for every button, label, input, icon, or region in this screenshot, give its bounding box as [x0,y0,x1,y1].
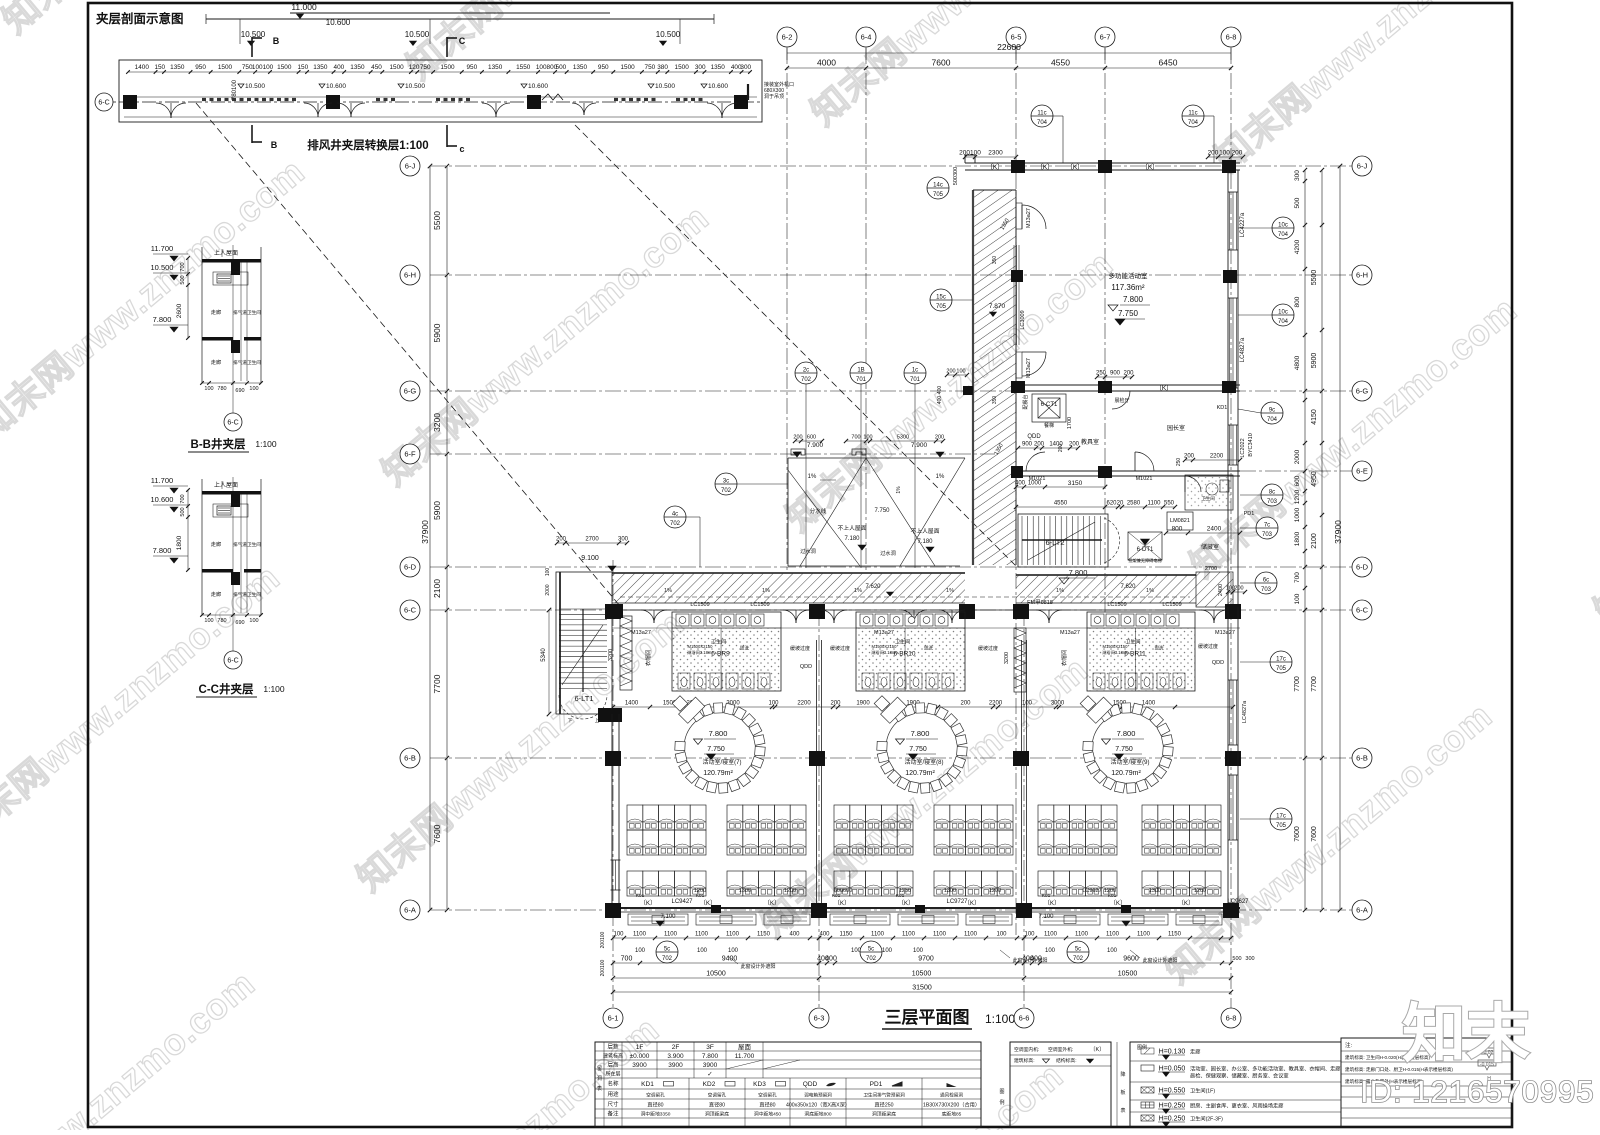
svg-text:板: 板 [1120,1089,1125,1096]
svg-text:6-3: 6-3 [814,1014,825,1023]
svg-text:705: 705 [933,192,944,198]
svg-text:7.750: 7.750 [1115,746,1133,753]
svg-text:350: 350 [992,256,998,265]
svg-text:1400: 1400 [1142,701,1156,707]
svg-text:B: B [273,36,280,46]
svg-text:704: 704 [1188,120,1199,126]
window LC3009 [1013,245,1015,345]
svg-text:活动室/寝室(8): 活动室/寝室(8) [904,758,943,766]
svg-text:7.800: 7.800 [702,1053,719,1060]
svg-text:层高: 层高 [607,1061,619,1069]
svg-text:〔K〕: 〔K〕 [764,900,780,907]
svg-text:1500: 1500 [218,64,233,71]
svg-text:6-H: 6-H [404,271,416,280]
svg-text:M1500X2150: M1500X2150 [1103,644,1129,649]
svg-text:〔K〕: 〔K〕 [898,900,914,907]
svg-text:6c: 6c [1263,578,1269,584]
svg-text:活动室/寝室(7): 活动室/寝室(7) [702,758,741,766]
svg-text:17c: 17c [1276,814,1286,820]
svg-text:20: 20 [1117,501,1124,507]
svg-text:名称: 名称 [607,1080,619,1088]
svg-text:400: 400 [937,386,943,395]
svg-text:100: 100 [249,386,258,392]
svg-text:6-F: 6-F [404,450,416,459]
svg-text:此窗设计外遮阳: 此窗设计外遮阳 [740,963,775,970]
svg-text:100: 100 [1022,701,1033,707]
svg-text:6-7: 6-7 [1100,33,1111,42]
bed group lower x=727 [727,871,743,896]
svg-text:200: 200 [1069,442,1080,448]
svg-text:KD2: KD2 [703,1081,716,1088]
strip columns [123,95,137,109]
svg-text:350: 350 [992,396,998,405]
svg-text:LC4227a: LC4227a [1240,212,1246,237]
bed group lower x=1038 [1038,871,1054,896]
svg-text:7700: 7700 [1311,676,1318,692]
svg-text:3150: 3150 [1068,480,1083,487]
svg-text:LC1509: LC1509 [750,602,769,608]
windows right wall LC4227a LC4827a [1232,192,1234,250]
svg-text:7.900: 7.900 [807,442,824,449]
svg-text:6-2: 6-2 [782,33,793,42]
svg-text:200: 200 [935,435,944,441]
svg-text:100: 100 [697,948,708,954]
bed group lower x=627 [627,871,643,896]
svg-text:705: 705 [1276,666,1287,672]
axis bubble 6-C strip [95,93,113,111]
svg-text:700: 700 [621,956,633,963]
svg-text:200: 200 [1034,442,1045,448]
svg-text:6-J: 6-J [405,162,416,171]
svg-text:37900: 37900 [420,520,430,544]
svg-text:900: 900 [1022,442,1033,448]
chain 31500 row [613,991,1231,993]
svg-text:6-BR9: 6-BR9 [711,651,730,658]
stair 6-LT2 [1018,514,1108,567]
bed group lower x=834 [834,871,850,896]
svg-text:250: 250 [1176,458,1182,467]
svg-text:夹层剖面示意图: 夹层剖面示意图 [96,11,184,26]
svg-text:2400: 2400 [1207,526,1222,533]
bed group upper x=1142 [1142,805,1158,830]
right wall lower wing [1227,607,1229,910]
svg-text:100: 100 [863,435,872,441]
svg-text:所在层: 所在层 [605,1071,620,1078]
svg-text:排气道: 排气道 [233,309,247,316]
strip double doors [156,103,171,118]
svg-text:c: c [459,144,464,154]
svg-text:5500: 5500 [432,211,442,230]
svg-text:400: 400 [819,932,830,938]
axis bubble 6-C (C-C) [232,621,234,651]
svg-text:1%: 1% [936,474,945,480]
svg-text:2700: 2700 [1205,566,1217,572]
svg-text:PD1: PD1 [1244,511,1255,517]
svg-text:〔K〕: 〔K〕 [1178,900,1194,907]
svg-text:BYC3410: BYC3410 [1248,433,1254,457]
svg-text:3900: 3900 [632,1062,647,1069]
svg-text:缓坡过度: 缓坡过度 [978,645,998,652]
svg-text:705: 705 [936,304,947,310]
svg-text:衣帽间: 衣帽间 [644,650,652,667]
svg-text:洞于吊顶: 洞于吊顶 [764,93,784,100]
bottom columns [605,903,621,918]
5c bubbles [656,941,678,963]
svg-text:500300: 500300 [953,167,959,185]
svg-text:层数: 层数 [607,1043,619,1051]
corridor columns [605,604,621,619]
svg-text:LC4827a: LC4827a [1242,700,1248,723]
svg-text:900: 900 [1110,371,1121,377]
dims rows 400 1000 / 3150 [1016,486,1045,488]
svg-text:690: 690 [235,388,244,394]
svg-text:200100: 200100 [600,931,606,948]
svg-text:6-6: 6-6 [1019,1014,1030,1023]
svg-text:400: 400 [825,956,837,963]
svg-text:200: 200 [1058,444,1064,453]
svg-text:晨检厅: 晨检厅 [1114,397,1129,404]
svg-text:✓: ✓ [707,1071,712,1078]
svg-text:6-LT1: 6-LT1 [574,694,593,703]
svg-text:400: 400 [1030,956,1042,963]
svg-text:卫生间(1F): 卫生间(1F) [1190,1087,1215,1095]
svg-text:1550: 1550 [516,64,531,71]
svg-text:结构标高:: 结构标高: [1056,1057,1077,1064]
svg-text:C-C井夹层: C-C井夹层 [199,682,254,696]
svg-text:M1021: M1021 [1136,476,1153,482]
bubbles above roof [795,362,817,384]
svg-text:多功能活动室: 多功能活动室 [1109,271,1149,280]
svg-text:1300: 1300 [1149,888,1161,894]
svg-text:洞中距地3350: 洞中距地3350 [641,1111,671,1118]
svg-text:5900: 5900 [432,501,442,520]
svg-text:9400: 9400 [722,956,738,963]
svg-text:1:100: 1:100 [255,439,277,449]
right dimension chains [1304,170,1306,610]
bay window 898 [898,914,958,925]
svg-text:10500: 10500 [706,971,726,978]
svg-text:ID: 1216570995: ID: 1216570995 [1360,1074,1595,1109]
svg-text:750: 750 [645,64,656,71]
svg-text:1200: 1200 [989,888,1001,894]
svg-text:704: 704 [1037,120,1048,126]
svg-text:400: 400 [789,932,800,938]
svg-text:缓坡过度: 缓坡过度 [830,645,850,652]
svg-text:7600: 7600 [932,58,951,68]
svg-text:卫生间: 卫生间 [247,591,261,598]
svg-text:卫生间: 卫生间 [247,541,261,548]
svg-text:5300: 5300 [897,435,909,441]
svg-text:1200: 1200 [784,888,796,894]
svg-text:2700: 2700 [585,537,599,543]
svg-text:知末: 知末 [1402,998,1530,1070]
svg-text:直径80: 直径80 [647,1101,663,1109]
svg-text:11.700: 11.700 [151,244,173,253]
svg-text:LC1509: LC1509 [1107,602,1126,608]
svg-text:〔K〕: 〔K〕 [640,900,656,907]
bay window 1040 [1040,914,1100,925]
svg-text:7.180: 7.180 [917,539,933,545]
svg-text:1150: 1150 [1168,932,1182,938]
svg-text:6-4: 6-4 [861,33,872,42]
svg-text:1%: 1% [1146,588,1154,594]
svg-text:7.900: 7.900 [911,442,928,449]
svg-text:H=0.250: H=0.250 [1159,1103,1186,1110]
svg-text:950: 950 [467,64,478,71]
svg-text:800: 800 [1172,526,1183,533]
washroom 6-BR10 [856,628,965,691]
svg-text:10.500: 10.500 [656,30,681,39]
projection dashed line 1 [196,103,620,606]
svg-text:100: 100 [1107,948,1118,954]
stair 6-LT1 [556,572,612,714]
svg-text:700: 700 [1294,572,1301,583]
svg-text:3200: 3200 [432,413,442,432]
parapet elevation lines above strip [206,18,714,20]
bay window 966 [966,914,1012,925]
svg-text:图: 图 [999,1089,1004,1095]
svg-text:10500: 10500 [912,971,932,978]
svg-text:11c: 11c [1037,111,1046,117]
svg-text:550: 550 [1164,501,1175,507]
svg-text:4950: 4950 [1311,471,1318,487]
svg-text:9.100: 9.100 [581,555,599,562]
svg-text:走廊: 走廊 [211,308,221,316]
section mark C bottom [446,125,448,147]
svg-text:1400: 1400 [625,701,639,707]
svg-text:卫生间: 卫生间 [1125,639,1140,646]
svg-text:1400: 1400 [135,64,150,71]
svg-text:6-G: 6-G [404,387,417,396]
svg-text:11.000: 11.000 [291,2,317,12]
svg-text:1100: 1100 [726,932,740,938]
svg-text:〔K〕: 〔K〕 [1036,163,1053,171]
svg-text:10.600: 10.600 [528,83,548,90]
svg-text:100: 100 [545,568,551,577]
svg-text:703: 703 [1267,499,1278,505]
svg-text:走廊: 走廊 [211,540,221,548]
vertical grid lines [786,48,788,570]
svg-text:建筑标高: 建筑标高 [603,1053,623,1060]
svg-text:6-8: 6-8 [1226,33,1237,42]
svg-text:B-B井夹层: B-B井夹层 [191,437,246,451]
svg-text:600: 600 [807,435,816,441]
svg-text:704: 704 [1278,319,1289,325]
corridor doors M13a27 [641,610,654,623]
svg-text:B: B [271,140,278,150]
left dimension chain [446,166,448,910]
svg-text:1100: 1100 [1044,932,1058,938]
svg-text:5c: 5c [664,947,670,953]
svg-text:底距地85: 底距地85 [942,1111,962,1118]
bubble 10c x2 [1272,217,1294,239]
svg-text:1100: 1100 [871,932,885,938]
columns 6-B row [605,751,621,766]
svg-text:6-H: 6-H [1356,271,1368,280]
svg-text:6-LT2: 6-LT2 [1045,538,1064,547]
svg-text:120.79m²: 120.79m² [905,770,935,777]
svg-text:22600: 22600 [997,42,1021,52]
bay window 1176 [1176,914,1222,925]
svg-text:3200: 3200 [1004,652,1010,664]
svg-text:洞底距地800: 洞底距地800 [804,1111,832,1118]
svg-text:1100: 1100 [1075,932,1089,938]
svg-text:洞顶距梁底: 洞顶距梁底 [705,1111,729,1118]
svg-text:500: 500 [1232,956,1241,962]
svg-text:2200: 2200 [797,701,811,707]
svg-text:7600: 7600 [1311,826,1318,842]
svg-text:10.600: 10.600 [326,83,346,90]
svg-text:500: 500 [180,275,186,284]
LM0821 [1167,512,1193,530]
svg-text:1200: 1200 [694,888,706,894]
svg-text:7.620: 7.620 [865,584,881,590]
svg-text:6450: 6450 [1159,58,1178,68]
svg-text:9c: 9c [1269,408,1275,414]
svg-text:6-C: 6-C [404,606,417,615]
svg-text:200: 200 [1232,150,1243,157]
svg-text:缓坡过度: 缓坡过度 [1198,643,1218,650]
svg-text:配餐台: 配餐台 [1022,394,1029,409]
svg-text:6-CT1: 6-CT1 [1041,402,1058,408]
chain 10500 row [613,977,1231,979]
svg-text:10.600: 10.600 [708,83,728,90]
svg-text:200: 200 [946,369,955,375]
legend table [1130,1042,1341,1127]
svg-text:活动室/寝室(9): 活动室/寝室(9) [1110,758,1149,766]
svg-text:1F: 1F [636,1044,644,1051]
svg-text:1800: 1800 [176,535,183,550]
svg-text:750: 750 [420,64,431,71]
svg-text:6-8: 6-8 [1226,1014,1237,1023]
svg-text:K01: K01 [636,893,645,899]
svg-text:100: 100 [728,948,739,954]
corridor hatched top wall right section [1016,575,1196,603]
svg-text:704: 704 [1278,232,1289,238]
svg-text:储藏室: 储藏室 [1201,543,1219,551]
svg-text:800: 800 [1294,296,1301,307]
svg-text:700: 700 [180,262,186,271]
corridor hatched top wall left section [612,573,965,603]
svg-text:8c: 8c [1269,490,1275,496]
bay window 628 [628,914,688,925]
svg-text:5500: 5500 [1311,270,1318,286]
svg-text:担架兼无障碍电梯: 担架兼无障碍电梯 [1128,557,1162,564]
svg-text:走廊: 走廊 [211,358,221,366]
svg-text:1350: 1350 [170,64,185,71]
section mark B bottom [251,125,253,143]
svg-text:1200: 1200 [1294,489,1301,504]
svg-text:100: 100 [204,618,213,624]
mezzanine strip plan [119,60,762,122]
svg-text:7.800: 7.800 [153,315,172,324]
svg-text:37900: 37900 [1333,520,1343,544]
doors M1021 [1026,452,1045,471]
svg-text:100: 100 [996,932,1007,938]
svg-text:晨检、保健观察、储藏室、厨务室、会议室: 晨检、保健观察、储藏室、厨务室、会议室 [1190,1072,1289,1080]
svg-text:卫生间排气管预留洞: 卫生间排气管预留洞 [863,1092,905,1099]
svg-text:100: 100 [768,701,779,707]
svg-text:M13a27: M13a27 [1026,358,1032,378]
zigzag shaft walls [620,616,632,690]
svg-text:H=0.130: H=0.130 [1159,1049,1186,1056]
svg-text:250: 250 [1096,371,1107,377]
svg-text:K01: K01 [1042,893,1051,899]
svg-text:7.100: 7.100 [660,914,676,920]
svg-text:QDD: QDD [1027,434,1041,440]
bay window 830 [830,914,890,925]
svg-text:LC9627: LC9627 [1227,899,1249,905]
axis bubbles top row [777,27,797,47]
svg-text:1300: 1300 [944,888,956,894]
interior wall 6-G upper wing [1014,384,1240,386]
bubble 15c [930,289,952,311]
svg-text:6-D: 6-D [1356,563,1369,572]
svg-text:KD1: KD1 [641,1081,654,1088]
svg-text:300: 300 [695,64,706,71]
strip vent grilles [202,98,206,101]
dims 250 900 200 [1097,376,1132,378]
small window left wall [614,860,616,890]
svg-text:1350: 1350 [711,64,726,71]
svg-text:100: 100 [956,369,965,375]
svg-text:100: 100 [613,932,624,938]
svg-text:703: 703 [1261,587,1272,593]
svg-text:6-A: 6-A [404,906,416,915]
svg-text:300: 300 [1245,956,1254,962]
svg-text:降: 降 [1120,1071,1125,1078]
middle table [1010,1042,1111,1127]
svg-text:FM甲0818: FM甲0818 [1027,599,1053,606]
bay window 764 [764,914,810,925]
svg-text:1200: 1200 [1194,888,1206,894]
svg-text:400x350x120（宽X高X深）: 400x350x120（宽X高X深） [786,1101,850,1109]
svg-text:5340: 5340 [541,648,547,662]
svg-text:5900: 5900 [432,323,442,342]
svg-text:1500: 1500 [440,64,455,71]
svg-text:200: 200 [960,701,971,707]
svg-text:尺寸: 尺寸 [607,1100,619,1108]
svg-text:上人屋面: 上人屋面 [214,249,238,257]
roof valley lines [800,458,866,566]
svg-text:7.620: 7.620 [1120,584,1136,590]
svg-text:2100: 2100 [1311,533,1318,549]
svg-text:卫生间(2F-3F): 卫生间(2F-3F) [1190,1115,1223,1123]
axis bubbles bottom row [603,1008,623,1028]
svg-text:10.600: 10.600 [151,495,174,504]
svg-text:餐梯: 餐梯 [1044,422,1054,429]
svg-text:表: 表 [597,1085,602,1092]
svg-text:排气道: 排气道 [233,591,247,598]
svg-text:500: 500 [556,64,567,71]
svg-text:洞: 洞 [597,1075,602,1082]
svg-text:10.600: 10.600 [326,18,351,27]
svg-text:1700: 1700 [1067,417,1073,429]
svg-text:7.750: 7.750 [1118,309,1139,318]
svg-text:洞中距地450: 洞中距地450 [754,1111,782,1118]
elevator 6-DT1 [1128,532,1162,560]
svg-text:100: 100 [1024,932,1035,938]
svg-text:780: 780 [217,386,226,392]
svg-text:3000: 3000 [1051,701,1065,707]
svg-text:6-G: 6-G [1356,387,1369,396]
door M13a27 top of shaft [1016,203,1022,229]
left wall below stair [611,714,613,910]
svg-text:100: 100 [1045,948,1056,954]
svg-text:500: 500 [180,507,186,516]
svg-text:7c: 7c [1264,523,1270,529]
svg-text:6-J: 6-J [1357,162,1368,171]
